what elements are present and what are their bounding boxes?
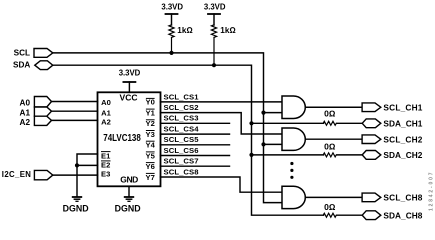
svg-text:SCL_CS1: SCL_CS1 — [164, 92, 200, 101]
svg-text:Y3: Y3 — [146, 130, 155, 139]
svg-text:SDA_CH2: SDA_CH2 — [383, 150, 422, 160]
svg-text:I2C_EN: I2C_EN — [2, 170, 31, 179]
svg-text:Y7: Y7 — [146, 173, 155, 182]
svg-text:0Ω: 0Ω — [324, 202, 336, 212]
svg-text:Y6: Y6 — [146, 162, 155, 171]
svg-text:SCL_CH2: SCL_CH2 — [383, 134, 422, 144]
svg-text:SCL_CH8: SCL_CH8 — [383, 193, 422, 203]
svg-text:SCL_CS2: SCL_CS2 — [164, 103, 199, 112]
svg-text:A0: A0 — [20, 98, 31, 107]
svg-text:GND: GND — [120, 174, 138, 184]
svg-text:Y2: Y2 — [146, 119, 155, 128]
svg-text:12842-007: 12842-007 — [429, 172, 435, 211]
svg-text:E3: E3 — [101, 170, 110, 179]
svg-text:A0: A0 — [101, 98, 111, 107]
svg-text:0Ω: 0Ω — [324, 109, 336, 119]
svg-text:3.3VD: 3.3VD — [204, 2, 226, 11]
svg-text:Y5: Y5 — [146, 151, 156, 160]
svg-text:A1: A1 — [101, 108, 111, 117]
svg-text:SCL_CS8: SCL_CS8 — [164, 167, 200, 176]
svg-text:SCL_CS4: SCL_CS4 — [164, 125, 200, 134]
svg-text:A2: A2 — [20, 118, 31, 127]
svg-text:SCL_CS7: SCL_CS7 — [164, 157, 199, 166]
svg-text:74LVC138: 74LVC138 — [103, 133, 141, 144]
svg-text:E1: E1 — [101, 152, 111, 161]
svg-text:0Ω: 0Ω — [324, 142, 336, 152]
svg-text:SCL_CS6: SCL_CS6 — [164, 146, 199, 155]
svg-text:Y4: Y4 — [146, 141, 156, 150]
svg-text:DGND: DGND — [115, 203, 141, 213]
svg-text:3.3VD: 3.3VD — [119, 69, 141, 78]
svg-text:1kΩ: 1kΩ — [177, 26, 192, 35]
svg-text:A2: A2 — [101, 118, 111, 127]
svg-text:1kΩ: 1kΩ — [220, 26, 235, 35]
svg-text:VCC: VCC — [120, 93, 138, 103]
svg-text:DGND: DGND — [63, 203, 89, 213]
svg-text:SDA_CH1: SDA_CH1 — [383, 118, 422, 128]
svg-text:SDA_CH8: SDA_CH8 — [383, 210, 422, 220]
svg-text:Y1: Y1 — [146, 108, 156, 117]
svg-text:SCL_CS5: SCL_CS5 — [164, 135, 200, 144]
svg-text:SCL: SCL — [14, 49, 30, 58]
svg-text:SDA: SDA — [13, 60, 30, 69]
svg-text:SCL_CH1: SCL_CH1 — [383, 102, 422, 112]
svg-text:E2: E2 — [101, 161, 110, 170]
svg-text:SCL_CS3: SCL_CS3 — [164, 114, 199, 123]
svg-text:A1: A1 — [20, 109, 31, 118]
svg-text:3.3VD: 3.3VD — [161, 2, 183, 11]
svg-text:Y0: Y0 — [146, 98, 155, 107]
